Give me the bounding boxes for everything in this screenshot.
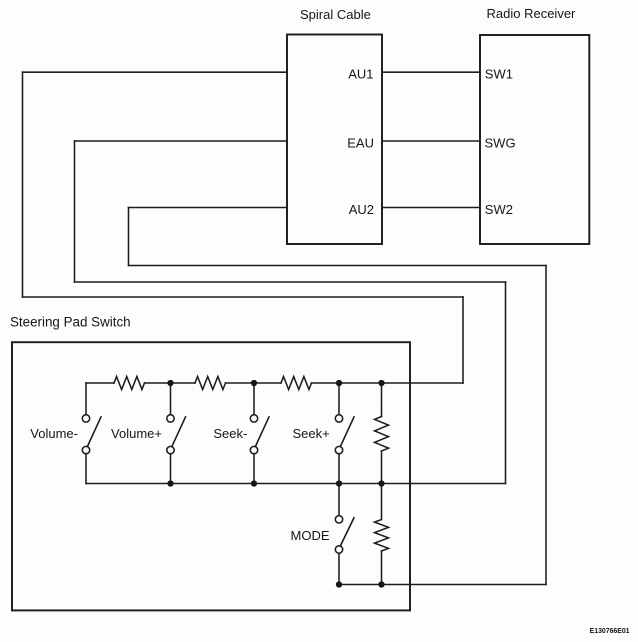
switch Seek-: [250, 383, 269, 484]
wire AU1 right vertical to top rail: [462, 297, 464, 383]
svg-text:SW2: SW2: [485, 202, 513, 217]
wire AU1 return horizontal: [23, 296, 464, 298]
junction MODE rail MODE: [336, 581, 342, 587]
wire AU2 right vertical to MODE rail: [545, 266, 547, 585]
resistor R1: [114, 377, 144, 390]
wire bottom rail: [86, 483, 506, 485]
wire MODE rail: [339, 584, 546, 586]
svg-text:AU1: AU1: [348, 67, 373, 82]
wire top rail segment b: [145, 382, 196, 384]
wire AU2 left vertical: [128, 208, 130, 266]
svg-text:SWG: SWG: [485, 136, 516, 151]
wire top rail segment a: [86, 382, 114, 384]
svg-text:Volume-: Volume-: [30, 426, 78, 441]
wire EAU right vertical to bottom rail: [505, 282, 507, 484]
wire AU2 to SW2: [382, 207, 480, 209]
svg-text:Seek+: Seek+: [292, 426, 329, 441]
resistor R3: [281, 377, 311, 390]
svg-text:Volume+: Volume+: [111, 426, 162, 441]
resistor R5 vertical: [375, 484, 389, 585]
svg-text:Seek-: Seek-: [213, 426, 247, 441]
switch Volume-: [82, 383, 101, 484]
switch Seek+: [335, 383, 354, 484]
wire AU2 return horizontal: [129, 265, 547, 267]
junction MODE rail R5: [378, 581, 384, 587]
switch Volume+: [167, 383, 186, 484]
wire EAU left horizontal: [75, 140, 288, 142]
junction bottom rail R4: [378, 480, 384, 486]
junction top rail Seek+: [336, 380, 342, 386]
svg-text:Spiral Cable: Spiral Cable: [300, 7, 371, 22]
wire AU1 left horizontal: [23, 71, 288, 73]
box Steering Pad Switch S1: [12, 342, 410, 610]
resistor R2: [195, 377, 225, 390]
wire top rail segment c: [226, 382, 282, 384]
wire AU1 left vertical: [22, 72, 24, 297]
svg-text:AU2: AU2: [349, 202, 374, 217]
wire AU1 to SW1: [382, 71, 480, 73]
box Spiral Cable U1: [287, 35, 382, 245]
svg-text:SW1: SW1: [485, 67, 513, 82]
switch MODE: [335, 484, 354, 585]
svg-text:Steering Pad Switch: Steering Pad Switch: [10, 315, 131, 330]
junction top rail R4: [378, 380, 384, 386]
wire EAU left vertical: [74, 141, 76, 282]
svg-text:E130766E01: E130766E01: [590, 628, 630, 635]
svg-text:Radio Receiver: Radio Receiver: [487, 6, 577, 21]
junction bottom rail Volume+: [167, 480, 173, 486]
junction top rail Volume+: [167, 380, 173, 386]
wire EAU return horizontal: [75, 281, 506, 283]
wire AU2 left horizontal: [129, 207, 288, 209]
resistor R4 vertical: [375, 383, 389, 484]
wire top rail segment d: [312, 382, 464, 384]
junction bottom rail Seek+: [336, 480, 342, 486]
box Radio Receiver U2: [480, 35, 589, 244]
junction bottom rail Seek-: [251, 480, 257, 486]
junction top rail Seek-: [251, 380, 257, 386]
svg-text:MODE: MODE: [291, 528, 330, 543]
wire EAU to SWG: [382, 140, 480, 142]
svg-text:EAU: EAU: [347, 136, 374, 151]
